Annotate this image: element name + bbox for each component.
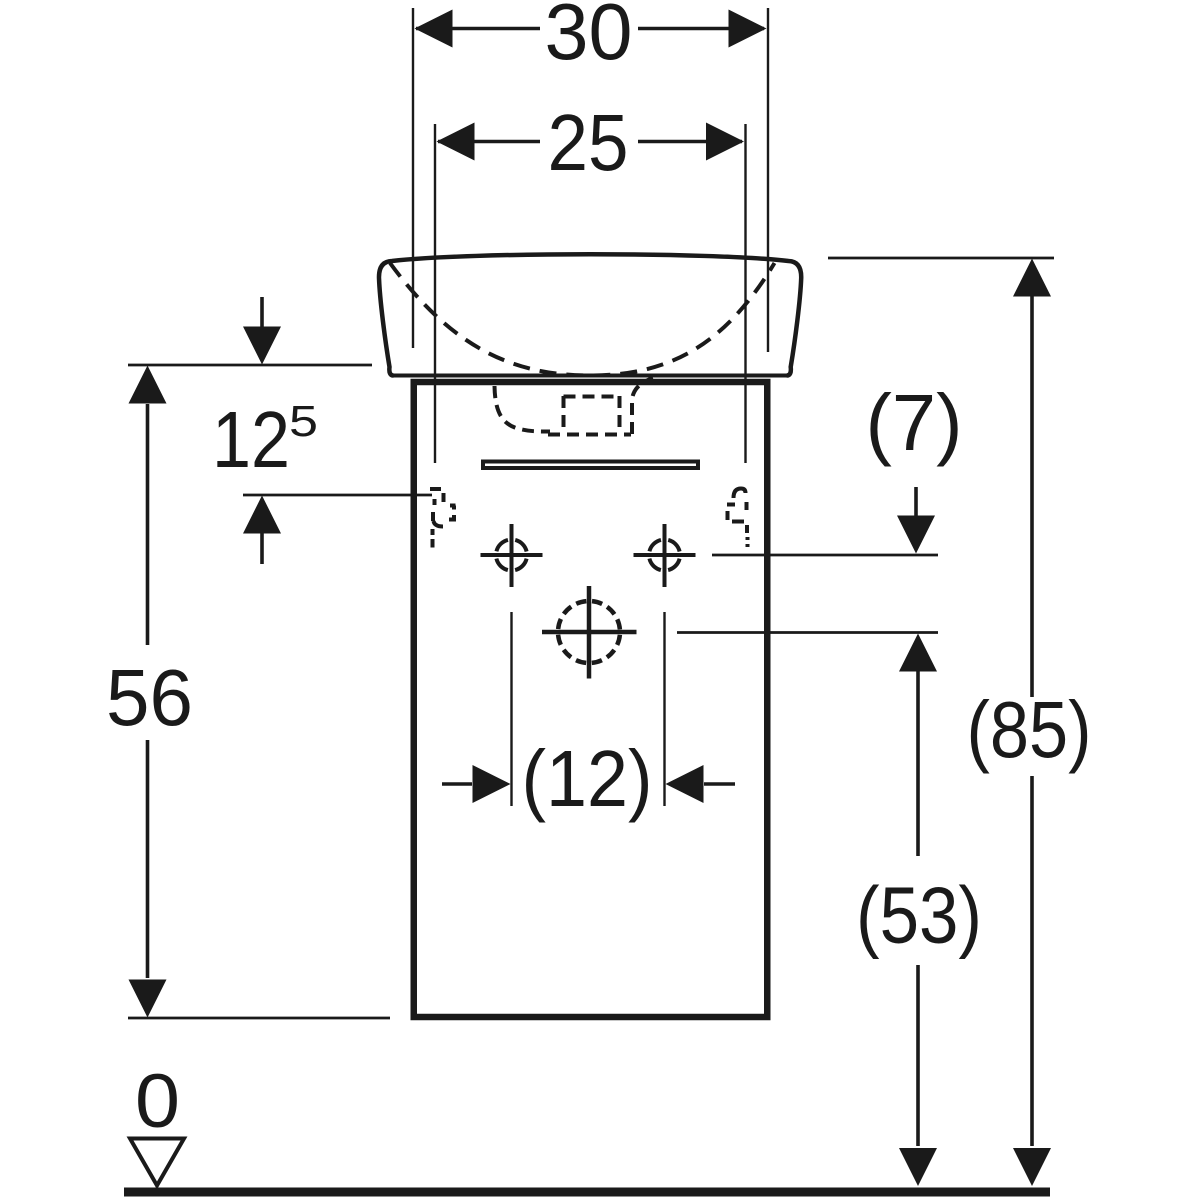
svg-text:(12): (12) bbox=[522, 734, 653, 823]
svg-text:30: 30 bbox=[545, 0, 633, 76]
svg-text:0: 0 bbox=[135, 1059, 180, 1144]
svg-text:5: 5 bbox=[289, 397, 318, 446]
svg-text:(53): (53) bbox=[856, 871, 982, 960]
svg-text:56: 56 bbox=[106, 653, 193, 742]
svg-text:(7): (7) bbox=[866, 378, 963, 467]
svg-text:25: 25 bbox=[548, 98, 629, 187]
svg-text:(85): (85) bbox=[967, 685, 1092, 774]
svg-text:12: 12 bbox=[212, 395, 290, 484]
